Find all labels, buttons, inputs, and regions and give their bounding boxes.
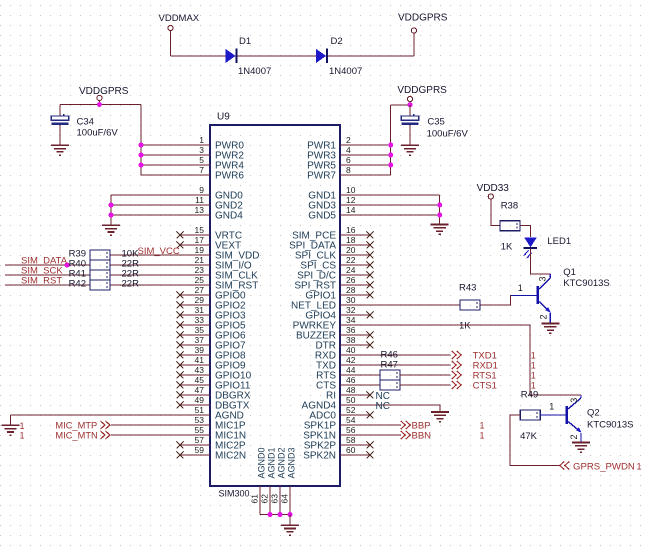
pin 54 SPK1P	[304, 415, 370, 432]
pin 5 PWR4	[180, 155, 244, 172]
resistor R38	[500, 221, 520, 231]
wire PWRKEY run	[370, 325, 530, 395]
svg-text:C35: C35	[427, 116, 444, 127]
capacitor C34	[51, 105, 68, 146]
port CTS1	[452, 381, 497, 392]
junction rail pin4	[388, 153, 393, 158]
pin 2 PWR1	[307, 135, 370, 152]
svg-text:1: 1	[531, 371, 536, 381]
svg-text:34: 34	[346, 315, 356, 325]
no-connect X on pin 43	[177, 372, 184, 379]
svg-text:GND4: GND4	[215, 211, 243, 222]
ground below C35	[401, 145, 419, 155]
no-connect X on pin 29	[177, 302, 184, 309]
pin 57 MIC2P	[180, 435, 246, 452]
svg-text:MIC2N: MIC2N	[215, 451, 246, 462]
svg-text:11: 11	[195, 195, 204, 205]
junction rail pin6	[388, 163, 393, 168]
wire GND4 row	[111, 214, 180, 216]
wire left agnd stub	[10, 415, 12, 425]
no-connect X on pin 60	[367, 452, 374, 459]
svg-text:47K: 47K	[520, 431, 538, 442]
junction AGND3 bottom	[288, 512, 293, 517]
svg-text:1: 1	[549, 401, 554, 411]
wire R49 top to Q2 collector	[530, 394, 581, 396]
junction AGND1 bottom	[268, 512, 273, 517]
svg-text:33: 33	[195, 315, 205, 325]
svg-text:49: 49	[195, 395, 205, 405]
power port VDDGPRS mid-left	[79, 86, 129, 101]
svg-text:40: 40	[346, 345, 356, 355]
svg-text:7: 7	[199, 165, 204, 175]
svg-text:9: 9	[199, 185, 204, 195]
svg-text:GPRS_PWDN: GPRS_PWDN	[573, 461, 635, 472]
svg-text:U9: U9	[217, 112, 230, 123]
no-connect X on pin 33	[177, 322, 184, 329]
LED LED1	[523, 237, 537, 258]
wire bottom gnd stub	[289, 515, 291, 526]
port RXD1	[452, 361, 498, 372]
junction on SIM_DATA wire	[65, 263, 70, 268]
svg-text:SPK2N: SPK2N	[303, 451, 336, 462]
svg-text:BBN: BBN	[412, 430, 432, 441]
svg-text:59: 59	[195, 445, 205, 455]
svg-text:1N4007: 1N4007	[329, 66, 362, 77]
pin 24 SPI_D/C	[297, 265, 370, 282]
power port VDD33	[477, 183, 510, 199]
pin 28 GPIO1	[305, 285, 370, 302]
svg-text:25: 25	[195, 275, 205, 285]
svg-text:31: 31	[195, 305, 205, 315]
svg-text:AGND3: AGND3	[287, 447, 297, 478]
wire CTS row right	[400, 384, 451, 386]
svg-text:VDDGPRS: VDDGPRS	[397, 85, 447, 96]
pin 4 PWR3	[307, 145, 370, 162]
svg-text:62: 62	[260, 494, 270, 504]
wire GND2 row	[111, 204, 180, 206]
pin 32 GPIO4	[305, 305, 370, 322]
svg-text:44: 44	[346, 365, 356, 375]
junction at VDDGPRS right	[408, 102, 413, 107]
transistor Q2	[540, 395, 581, 443]
svg-text:GND5: GND5	[308, 211, 336, 222]
no-connect X on pin 59	[177, 452, 184, 459]
wire GND0 row	[111, 194, 180, 196]
svg-text:14: 14	[346, 205, 356, 215]
svg-text:SIM_RST: SIM_RST	[21, 276, 62, 287]
svg-text:C34: C34	[77, 117, 94, 128]
svg-text:20: 20	[346, 245, 356, 255]
transistor Q1	[511, 274, 551, 323]
no-connect X on pin 41	[177, 362, 184, 369]
wire TXD row	[370, 364, 451, 366]
pin 26 SPI_RST	[294, 275, 370, 292]
resistor R43	[460, 300, 480, 310]
wire SIM_RST row	[5, 284, 90, 286]
pin 41 GPIO9	[180, 355, 246, 372]
ground below U9	[281, 525, 299, 535]
wire R43 to Q1 base	[481, 295, 524, 305]
wire NET_LED to R43	[370, 304, 460, 306]
ground left of IC	[102, 225, 120, 235]
svg-text:13: 13	[195, 205, 205, 215]
svg-text:2: 2	[569, 434, 579, 439]
svg-text:VDD33: VDD33	[477, 183, 510, 194]
resistor R42	[90, 280, 110, 290]
pin 33 GPIO5	[180, 315, 246, 332]
svg-text:R49: R49	[521, 390, 538, 401]
svg-text:28: 28	[346, 285, 356, 295]
resistor R45	[380, 380, 400, 390]
pin 12 GND3	[308, 195, 370, 212]
wire VDDGPRS left stub	[98, 101, 100, 105]
svg-text:VDDMAX: VDDMAX	[159, 13, 200, 24]
wire GND1 row	[370, 194, 440, 196]
svg-text:22R: 22R	[122, 279, 140, 290]
no-connect X on pin 17	[177, 242, 184, 249]
port BBP	[401, 420, 431, 431]
junction rail pin2	[388, 143, 393, 148]
svg-text:100uF/6V: 100uF/6V	[427, 129, 469, 140]
svg-text:32: 32	[346, 305, 356, 315]
wire right power rail vertical	[390, 105, 392, 175]
no-connect X on pin 15	[177, 232, 184, 239]
no-connect X on pin 49	[177, 402, 184, 409]
wire top rail	[171, 55, 414, 57]
power port VDDGPRS top-right	[398, 13, 448, 34]
resistor R49	[520, 410, 540, 420]
wire VDDGPRS right stub	[409, 102, 411, 105]
wire to pin 1	[141, 144, 180, 146]
wire AGND bottom bus	[260, 514, 290, 516]
svg-text:R43: R43	[459, 283, 476, 294]
port BBN	[401, 430, 431, 441]
svg-text:53: 53	[195, 415, 205, 425]
wire GND3 row	[370, 204, 440, 206]
no-connect X on pin 47	[177, 392, 184, 399]
pin 37 GPIO7	[180, 335, 246, 352]
wire R38 to LED1	[521, 226, 531, 238]
svg-text:8: 8	[346, 165, 351, 175]
pin 25 SIM_RST	[180, 275, 258, 292]
pin 23 SIM_CLK	[180, 265, 258, 282]
no-connect X on pin 26	[367, 282, 374, 289]
svg-text:58: 58	[346, 435, 356, 445]
pin 50 AGND4	[302, 395, 370, 412]
svg-text:1: 1	[518, 283, 523, 293]
wire right rail top	[391, 104, 410, 106]
svg-text:PWR7: PWR7	[307, 171, 336, 182]
no-connect X on pin 39	[177, 352, 184, 359]
svg-text:43: 43	[195, 365, 205, 375]
port GPRS_PWDN	[560, 461, 635, 472]
svg-text:4: 4	[346, 145, 351, 155]
svg-text:1: 1	[637, 461, 642, 471]
diode D1	[226, 49, 237, 64]
svg-text:55: 55	[195, 425, 205, 435]
svg-text:SIM_VCC: SIM_VCC	[138, 246, 180, 257]
svg-text:D2: D2	[331, 36, 343, 47]
svg-text:64: 64	[280, 494, 290, 504]
pin 19 SIM_VDD	[180, 245, 259, 262]
pin 18 SPI_DATA	[289, 235, 370, 252]
svg-text:15: 15	[195, 225, 205, 235]
resistor R41	[90, 270, 110, 280]
svg-text:6: 6	[346, 155, 351, 165]
wire to pin 2	[370, 144, 391, 146]
pin 31 GPIO3	[180, 305, 246, 322]
port MIC_MTP	[55, 420, 110, 430]
pin 7 PWR6	[180, 165, 244, 182]
wire to pin 7	[141, 174, 180, 176]
pin 64 AGND3	[280, 447, 297, 514]
svg-text:R42: R42	[69, 279, 86, 290]
pin 56 SPK1N	[303, 425, 370, 442]
ground right of IC	[431, 225, 449, 235]
svg-text:KTC9013S: KTC9013S	[563, 278, 609, 289]
svg-text:36: 36	[346, 325, 356, 335]
wire to pin 6	[370, 164, 391, 166]
svg-text:38: 38	[346, 335, 356, 345]
svg-text:100uF/6V: 100uF/6V	[77, 128, 119, 139]
svg-text:21: 21	[195, 255, 205, 265]
wire left power rail vertical	[140, 105, 142, 176]
pin 51 AGND	[180, 405, 244, 422]
pin 22 SPI_CS	[300, 255, 370, 272]
svg-text:1N4007: 1N4007	[238, 66, 271, 77]
svg-text:AGND0: AGND0	[257, 447, 267, 478]
svg-text:42: 42	[346, 355, 356, 365]
wire to pin 5	[141, 164, 180, 166]
no-connect X on pin 31	[177, 312, 184, 319]
pin 8 PWR7	[307, 165, 370, 182]
svg-text:KTC9013S: KTC9013S	[587, 419, 633, 430]
svg-text:1: 1	[20, 431, 25, 441]
svg-text:3: 3	[199, 145, 204, 155]
svg-text:CTS1: CTS1	[473, 381, 497, 392]
no-connect X on pin 27	[177, 292, 184, 299]
wire RXD row	[370, 354, 451, 356]
no-connect X on pin 24	[367, 272, 374, 279]
pin 21 SIM_I/O	[180, 255, 252, 272]
pin 63 AGND2	[270, 447, 287, 514]
no-connect X on pin 16	[367, 232, 374, 239]
wire SIM_DATA row	[5, 264, 90, 266]
junction rail pin3	[139, 153, 144, 158]
svg-text:47: 47	[195, 385, 205, 395]
pin 47 DBGRX	[180, 385, 251, 402]
pin 39 GPIO8	[180, 345, 246, 362]
wire GND5 row	[370, 214, 440, 216]
no-connect X on pin 36	[367, 332, 374, 339]
svg-text:52: 52	[346, 405, 356, 415]
pin 49 DBGTX	[180, 395, 250, 412]
no-connect X on pin 57	[177, 442, 184, 449]
pin 17 VEXT	[180, 235, 241, 252]
ground AGND4	[431, 412, 449, 422]
svg-text:2: 2	[538, 314, 548, 319]
junction at VDDGPRS left	[97, 102, 102, 107]
wire to pin 8	[370, 174, 391, 176]
svg-text:1: 1	[531, 381, 536, 391]
resistor R40	[90, 260, 110, 270]
svg-text:22: 22	[346, 255, 356, 265]
wire RTS row right	[400, 374, 451, 376]
svg-text:Q2: Q2	[587, 408, 600, 419]
pin 36 BUZZER	[296, 325, 370, 342]
op-amp U9 body (SIM300 module IC)	[210, 125, 340, 486]
svg-text:1: 1	[531, 351, 536, 361]
pin 53 MIC1P	[180, 415, 246, 432]
ground left MIC area	[2, 425, 20, 435]
port MIC_MTN	[55, 430, 110, 440]
pin 27 GPIO0	[180, 285, 246, 302]
pin 40 RXD	[315, 345, 370, 362]
svg-text:AGND2: AGND2	[277, 447, 287, 478]
pin 10 GND1	[308, 185, 370, 202]
svg-text:30: 30	[346, 295, 356, 305]
pin 20 SPI_CLK	[295, 245, 370, 262]
wire SIM_SCK row	[5, 274, 90, 276]
svg-text:1: 1	[480, 431, 485, 441]
pin 42 TXD	[316, 355, 370, 372]
svg-text:19: 19	[195, 245, 205, 255]
wire MIC1N row	[111, 434, 180, 436]
pin 55 MIC1N	[180, 425, 246, 442]
ground below C34	[51, 145, 69, 155]
svg-text:10: 10	[346, 185, 356, 195]
pin 9 GND0	[180, 185, 243, 202]
no-connect X on pin 58	[367, 442, 374, 449]
svg-text:39: 39	[195, 345, 205, 355]
pin 14 GND5	[308, 205, 370, 222]
pin 62 AGND1	[260, 447, 277, 514]
svg-text:50: 50	[346, 395, 356, 405]
wire SPK1N row	[370, 434, 401, 436]
ground below Q2	[572, 443, 590, 453]
pin 29 GPIO2	[180, 295, 246, 312]
svg-text:D1: D1	[239, 36, 251, 47]
junction right gnd GND3	[437, 203, 442, 208]
junction right gnd GND5	[437, 213, 442, 218]
wire RTS row left	[370, 374, 380, 376]
pin 16 SIM_PCE	[292, 225, 370, 242]
wire left gnd rail vertical	[110, 195, 112, 225]
no-connect X on pin 28	[367, 292, 374, 299]
svg-text:46: 46	[346, 375, 356, 385]
pin 11 GND2	[180, 195, 243, 212]
junction rail pin5	[139, 163, 144, 168]
wire right gnd rail vertical	[439, 195, 441, 225]
wire VDDMAX stub	[170, 31, 172, 56]
svg-text:VDDGPRS: VDDGPRS	[79, 86, 129, 97]
svg-text:23: 23	[195, 265, 205, 275]
ground below Q1	[541, 324, 559, 334]
wire to pin 4	[370, 154, 391, 156]
pin 3 PWR2	[180, 145, 244, 162]
pin 45 GPIO11	[180, 375, 251, 392]
pin 6 PWR5	[307, 155, 370, 172]
pin 35 GPIO6	[180, 325, 246, 342]
svg-text:18: 18	[346, 235, 356, 245]
no-connect X on pin 32	[367, 312, 374, 319]
resistor R39	[90, 250, 110, 260]
wire CTS row left	[370, 384, 380, 386]
port TXD1	[452, 351, 497, 362]
svg-text:56: 56	[346, 425, 356, 435]
wire R49 left to GPRS_PWDN	[510, 415, 560, 466]
resistor R44	[380, 370, 400, 380]
svg-text:60: 60	[346, 445, 356, 455]
diode D2	[316, 49, 327, 64]
wire SPK1P row	[370, 424, 401, 426]
wire AGND row to left	[11, 414, 181, 416]
svg-text:45: 45	[195, 375, 205, 385]
svg-text:26: 26	[346, 275, 356, 285]
svg-text:12: 12	[346, 195, 356, 205]
power port VDDMAX	[159, 13, 200, 31]
wire MIC1P row	[111, 424, 180, 426]
svg-text:VDDGPRS: VDDGPRS	[398, 13, 448, 24]
svg-text:2: 2	[346, 135, 351, 145]
svg-text:NC: NC	[376, 401, 390, 412]
pin 52 ADC0	[309, 405, 370, 422]
svg-text:35: 35	[195, 325, 205, 335]
svg-text:MIC_MTP: MIC_MTP	[55, 420, 97, 430]
no-connect X on pin 48	[367, 392, 374, 399]
junction left gnd GND4	[109, 213, 114, 218]
svg-text:37: 37	[195, 335, 205, 345]
pin 58 SPK2P	[304, 435, 370, 452]
svg-text:57: 57	[195, 435, 205, 445]
no-connect X on pin 35	[177, 332, 184, 339]
svg-text:48: 48	[346, 385, 356, 395]
pin 13 GND4	[180, 205, 243, 222]
svg-text:R38: R38	[501, 201, 518, 212]
pin 38 DTR	[315, 335, 370, 352]
svg-text:LED1: LED1	[547, 236, 571, 247]
svg-text:Q1: Q1	[563, 267, 576, 278]
pin 30 NET_LED	[291, 295, 370, 312]
pin 34 PWRKEY	[293, 315, 370, 332]
svg-text:61: 61	[250, 494, 260, 504]
junction rail pin1	[139, 143, 144, 148]
wire to pin 3	[141, 154, 180, 156]
power port VDDGPRS mid-right	[397, 85, 447, 102]
wire VDDGPRS top stub	[413, 33, 415, 56]
wire VDD33 to R38	[491, 199, 500, 225]
port RTS1	[452, 371, 497, 382]
pin 61 AGND0	[250, 447, 267, 514]
svg-text:1K: 1K	[459, 320, 471, 331]
no-connect X on pin 37	[177, 342, 184, 349]
svg-text:AGND1: AGND1	[267, 447, 277, 478]
svg-text:63: 63	[270, 494, 280, 504]
no-connect X on pin 52	[367, 412, 374, 419]
no-connect X on pin 38	[367, 342, 374, 349]
svg-text:5: 5	[199, 155, 204, 165]
svg-text:1K: 1K	[501, 242, 513, 253]
svg-text:SIM300: SIM300	[219, 489, 250, 499]
capacitor C35	[401, 105, 418, 145]
no-connect X on pin 18	[367, 242, 374, 249]
pin 48 RI	[326, 385, 370, 402]
wire LED1 to Q1 collector	[531, 249, 551, 274]
svg-text:1: 1	[199, 135, 204, 145]
pin 43 GPIO10	[180, 365, 252, 382]
pin 1 PWR0	[180, 135, 244, 152]
pin 44 RTS	[316, 365, 370, 382]
